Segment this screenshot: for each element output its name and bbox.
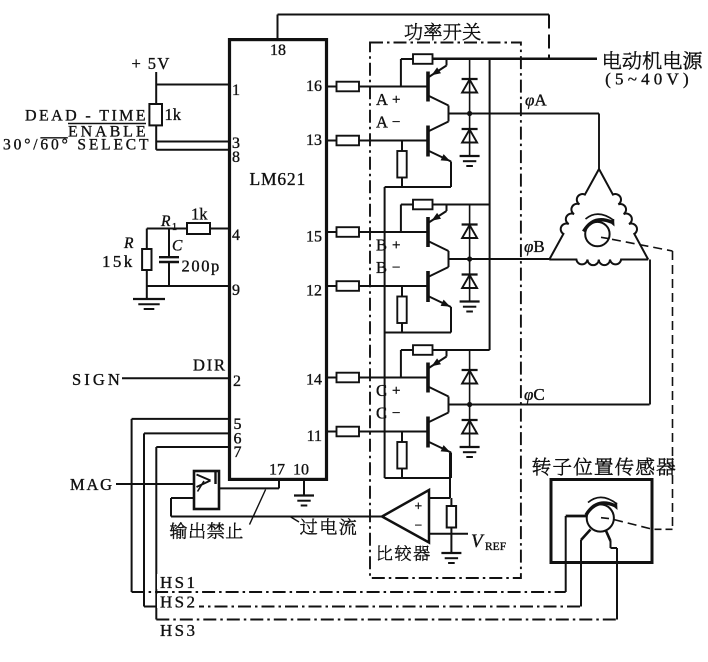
ground lower diode cell C [460, 447, 480, 457]
svg-text:10: 10 [293, 462, 309, 479]
svg-text:SIGN: SIGN [72, 370, 123, 389]
resistor pulldown cell C [397, 432, 406, 479]
svg-text:+ 5V: + 5V [132, 54, 171, 73]
wire pin 6 [144, 432, 230, 434]
svg-text:R: R [160, 213, 171, 230]
pin 4 [232, 227, 240, 244]
resistor pulldown cell A [397, 141, 406, 188]
svg-text:φB: φB [524, 237, 545, 256]
wire pin 1 [156, 84, 229, 86]
label 过电流 overcurrent [290, 517, 356, 535]
svg-text:2: 2 [233, 373, 241, 390]
svg-text:1: 1 [172, 222, 177, 233]
transistor upper PNP cell A [428, 59, 449, 114]
wire phase A drop to motor [598, 114, 600, 170]
svg-text:9: 9 [232, 282, 240, 299]
diode freewheel upper cell C [462, 350, 478, 405]
motor M (delta winding) [549, 169, 648, 265]
svg-text:φC: φC [524, 385, 545, 404]
motor rotation arrow [584, 214, 615, 231]
svg-text:14: 14 [306, 372, 322, 389]
svg-text:REF: REF [485, 541, 506, 553]
svg-text:A: A [376, 113, 388, 132]
label C [172, 238, 183, 255]
mechanical coupling dashed link motor-sensor [601, 237, 673, 529]
svg-text:15: 15 [306, 229, 322, 246]
svg-text:HS1: HS1 [160, 573, 197, 592]
resistor base drive C+ (pin 14) [327, 373, 429, 383]
svg-text:30°/60° SELECT: 30°/60° SELECT [3, 137, 151, 154]
wire emitter bus to comparator + input [429, 453, 450, 498]
resistor base drive A+ (pin 16) [327, 82, 429, 92]
label A- [376, 113, 400, 132]
wire sensor lead HS2 [581, 530, 591, 607]
label 转子位置传感器 rotor position sensor [533, 458, 676, 476]
resistor upper bias cell A [401, 54, 597, 86]
wire emitter sense bus cell C [385, 477, 451, 479]
svg-text:7: 7 [234, 444, 242, 461]
resistor R 15k [142, 229, 151, 299]
label 输出禁止 output inhibit [170, 490, 266, 539]
label 电动机电源 (5~40V) motor power [604, 51, 701, 88]
svg-text:1k: 1k [165, 105, 182, 124]
svg-text:−: − [415, 518, 423, 533]
resistor base drive B+ (pin 15) [327, 227, 429, 237]
svg-text:(5~40V): (5~40V) [605, 70, 693, 89]
label phi-A [525, 91, 547, 110]
op-amp comparator [382, 490, 429, 543]
pin 15 [306, 229, 322, 246]
diode freewheel upper cell B [462, 205, 478, 260]
wire MAG [116, 483, 194, 485]
resistor upper bias cell B [401, 200, 490, 232]
wire sensor lead HS3 [606, 530, 618, 620]
pin 10 [293, 462, 309, 479]
label R [123, 235, 134, 252]
label SIGN [72, 370, 123, 389]
ground lower diode cell B [460, 302, 480, 312]
svg-text:13: 13 [306, 132, 322, 149]
svg-text:11: 11 [307, 428, 322, 445]
label phi-B [524, 237, 545, 256]
wire pin 5 [132, 418, 230, 420]
wire pin 4 [147, 228, 230, 230]
svg-text:MAG: MAG [70, 475, 114, 494]
wire V+ rail inside switch box [489, 59, 491, 351]
sensor box [551, 480, 652, 563]
label 15k [102, 252, 135, 271]
label 比较器 comparator [378, 545, 430, 561]
label C+ [376, 381, 400, 400]
motor rotor [585, 222, 609, 246]
pin 11 [307, 428, 322, 445]
diode freewheel lower cell A [462, 114, 478, 157]
capacitor C 200p [159, 229, 179, 287]
pin 14 [306, 372, 322, 389]
svg-text:−: − [392, 260, 400, 276]
transistor upper PNP cell B [428, 205, 449, 260]
resistor pulldown cell B [397, 286, 406, 333]
svg-text:−: − [392, 406, 400, 422]
resistor 1k pull-up [149, 104, 162, 150]
label HS2 [157, 593, 199, 612]
label HS1 [157, 573, 197, 592]
svg-text:12: 12 [306, 283, 322, 300]
svg-text:DEAD - TIME: DEAD - TIME [25, 108, 148, 125]
wire pin 7 [156, 446, 229, 448]
label 30/60 SELECT [3, 137, 151, 154]
wire pin 9 [147, 285, 230, 287]
label 200p [182, 257, 221, 276]
pin 2 [233, 373, 241, 390]
resistor base drive B- (pin 12) [327, 281, 429, 291]
label 1k [165, 105, 182, 124]
diode freewheel lower cell C [462, 405, 478, 448]
resistor R1 1k [187, 223, 210, 234]
sensor rotation arrow [586, 497, 618, 515]
svg-text:HS3: HS3 [160, 621, 197, 640]
wire phase B output [449, 258, 550, 260]
IC U1 LM621 motor controller [230, 40, 327, 480]
switch output inhibit [194, 471, 219, 509]
label A+ [376, 90, 400, 109]
diode freewheel lower cell B [462, 259, 478, 302]
label C- [376, 404, 400, 423]
label DIR [193, 356, 227, 375]
ground RC network [133, 299, 165, 309]
svg-text:φA: φA [525, 91, 547, 110]
ground pin 10 [294, 479, 314, 505]
wire emitter sense bus cell A [385, 186, 451, 188]
label DEAD-TIME [25, 108, 148, 125]
wire pin 8 [156, 149, 229, 151]
wire HS2 [144, 433, 581, 606]
svg-text:+: + [392, 238, 400, 254]
label VREF [471, 531, 506, 553]
svg-text:8: 8 [232, 149, 240, 166]
wire phase C riser from motor [649, 260, 651, 405]
pin 6 [234, 431, 242, 448]
svg-text:LM621: LM621 [250, 169, 307, 189]
wire comparator - input / VREF [429, 533, 468, 535]
resistor base drive A- (pin 13) [327, 136, 429, 146]
svg-text:15k: 15k [102, 252, 135, 271]
svg-text:200p: 200p [182, 257, 221, 276]
pin 1 [232, 82, 240, 99]
svg-text:1k: 1k [191, 205, 208, 224]
svg-text:R: R [123, 235, 134, 252]
label +5V [132, 54, 171, 73]
wire phase C output [449, 404, 650, 406]
label phi-C [524, 385, 545, 404]
diode freewheel upper cell A [462, 59, 478, 114]
node output junction phase C [467, 402, 472, 407]
node pin 18 label [270, 42, 286, 59]
pin 12 [306, 283, 322, 300]
pin 16 [306, 78, 322, 95]
svg-text:+: + [392, 383, 400, 399]
ground VREF [441, 534, 461, 563]
wire pin 3 [156, 141, 229, 143]
transistor upper PNP cell C [428, 350, 449, 405]
wire pin 2 SIGN [122, 377, 230, 379]
wire HS1 [132, 419, 566, 592]
transistor lower NPN cell C [428, 405, 451, 479]
wire emitter bus vertical [384, 187, 386, 478]
label HS3 [157, 621, 197, 640]
label R1 [160, 213, 177, 233]
svg-text:4: 4 [232, 227, 240, 244]
wire pin 18 to motor supply [278, 15, 550, 59]
sensor element [587, 504, 614, 531]
svg-text:+: + [392, 92, 400, 108]
pin 8 [232, 149, 240, 166]
label 1k (R1) [191, 205, 208, 224]
svg-text:17: 17 [269, 462, 285, 479]
wire pin 17 to inhibit switch [219, 479, 279, 488]
resistor sense VREF [447, 498, 456, 534]
pin 9 [232, 282, 240, 299]
wire +5V feed [155, 72, 157, 104]
transistor lower NPN cell B [428, 259, 451, 333]
resistor base drive C- (pin 11) [327, 427, 429, 437]
wire motor power supply line [433, 58, 598, 60]
svg-text:DIR: DIR [193, 356, 227, 375]
svg-text:C: C [172, 238, 183, 255]
resistor upper bias cell C [401, 345, 490, 377]
wire overcurrent (comparator output) [171, 516, 382, 518]
node output junction phase A [467, 111, 472, 116]
pin 13 [306, 132, 322, 149]
svg-text:1: 1 [232, 82, 240, 99]
label B+ [376, 236, 400, 255]
wire emitter sense bus cell B [385, 332, 451, 334]
node output junction phase B [467, 256, 472, 261]
pin 17 [269, 462, 285, 479]
transistor lower NPN cell A [428, 114, 451, 188]
wire sensor lead HS1 [566, 516, 587, 592]
label B- [376, 258, 400, 277]
ground lower diode cell A [460, 156, 480, 166]
svg-text:HS2: HS2 [160, 593, 197, 612]
label MAG [70, 475, 114, 494]
svg-text:+: + [415, 499, 423, 514]
label 功率开关 power switch [405, 23, 481, 40]
pin 5 [234, 416, 242, 433]
svg-text:18: 18 [270, 42, 286, 59]
svg-text:A: A [376, 90, 388, 109]
svg-text:−: − [392, 115, 400, 131]
wire HS3 [156, 447, 617, 620]
svg-text:16: 16 [306, 78, 322, 95]
label ENABLE (active low) [68, 124, 149, 141]
pin 7 [234, 444, 242, 461]
power switch dashed enclosure [370, 43, 521, 579]
wire phase A output [449, 113, 600, 115]
wire inhibit switch to overcurrent line [171, 498, 194, 517]
pin 3 [232, 135, 240, 152]
